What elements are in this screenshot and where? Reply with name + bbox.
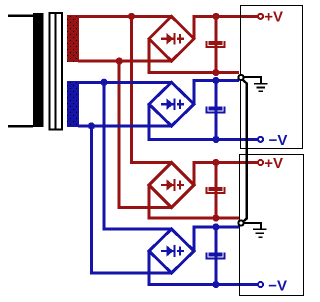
svg-text:−V: −V	[268, 277, 287, 294]
svg-text:+V: +V	[264, 9, 283, 26]
svg-text:+V: +V	[264, 155, 283, 172]
svg-text:−V: −V	[269, 132, 288, 149]
